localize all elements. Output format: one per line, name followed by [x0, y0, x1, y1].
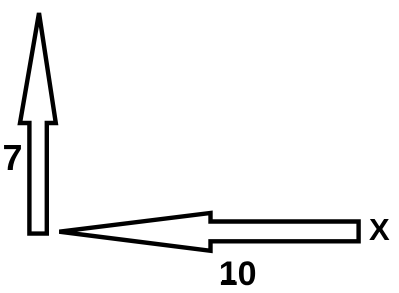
svg-text:10: 10: [219, 255, 257, 293]
svg-text:7: 7: [3, 137, 23, 178]
svg-text:X: X: [369, 212, 390, 247]
serif bar of digit 1: [222, 280, 235, 284]
vertical arrow (vector, 7 units, pointing up): [20, 13, 56, 234]
horizontal arrow (vector, 10 units, pointing left): [59, 213, 358, 251]
